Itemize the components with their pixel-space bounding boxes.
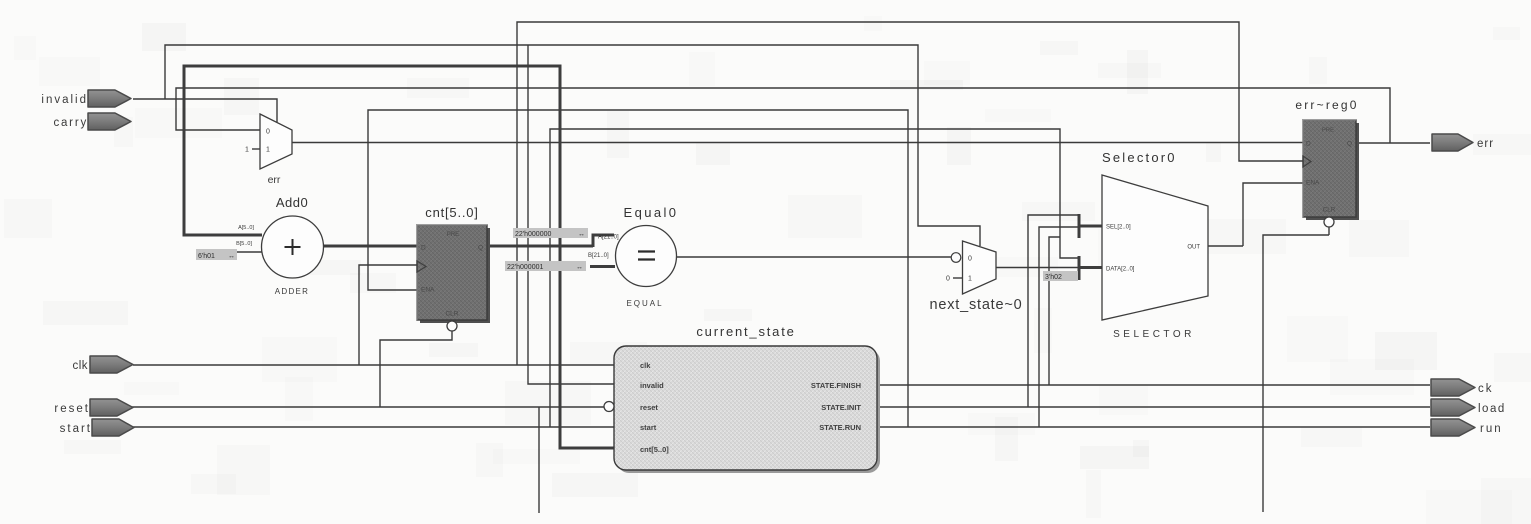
comparator Equal0 <box>588 205 678 308</box>
svg-text:SELECTOR: SELECTOR <box>1113 329 1195 340</box>
register cnt[5..0] <box>417 205 490 331</box>
svg-text:0: 0 <box>946 276 950 283</box>
svg-text:Selector0: Selector0 <box>1102 150 1177 165</box>
wire: clk net <box>133 22 1303 365</box>
port carry <box>53 113 131 130</box>
port run <box>1431 419 1503 436</box>
wire: Add0 output bus (thick) <box>324 245 417 248</box>
svg-text:next_state~0: next_state~0 <box>929 297 1022 313</box>
wire: Equal0 output to next_state mux <box>677 256 951 258</box>
svg-text:CLR: CLR <box>445 311 458 318</box>
svg-text:carry: carry <box>53 117 88 129</box>
port load <box>1431 399 1506 416</box>
svg-text:22'h000000: 22'h000000 <box>515 231 551 238</box>
svg-text:clk: clk <box>72 360 88 372</box>
fsm current_state <box>604 324 880 473</box>
label: constant 3'h02 at Selector DATA <box>1043 271 1078 281</box>
wire: err~reg0 CLR net <box>1263 227 1329 512</box>
svg-text:A[5..0]: A[5..0] <box>238 225 254 231</box>
svg-text:Add0: Add0 <box>276 195 308 210</box>
svg-text:err: err <box>1477 138 1494 150</box>
svg-text:1: 1 <box>968 276 972 283</box>
svg-text:ck: ck <box>1478 383 1494 395</box>
svg-text:3'h02: 3'h02 <box>1045 274 1062 281</box>
wire: state run / enable net <box>368 110 1430 427</box>
wire: Equal0 B constant stub (thick) <box>590 265 615 268</box>
svg-text:invalid: invalid <box>640 381 664 390</box>
svg-text:A[21..0]: A[21..0] <box>598 235 619 241</box>
current_state reset bubble <box>604 402 614 412</box>
wire: selector input collectors (thick) <box>1079 214 1102 280</box>
svg-text:EQUAL: EQUAL <box>626 299 663 308</box>
svg-text:ENA: ENA <box>421 287 435 294</box>
svg-text:reset: reset <box>54 403 90 415</box>
svg-text:↔: ↔ <box>576 264 583 271</box>
wire: Selector0 OUT to err~reg0 ENA <box>1208 183 1303 246</box>
register err~reg0 <box>1295 98 1359 227</box>
wire: start net <box>92 129 1079 427</box>
svg-text:1: 1 <box>266 147 270 154</box>
svg-text:clk: clk <box>640 361 651 370</box>
wire: next_state mux constant 0 stub <box>953 277 962 279</box>
wire: state init net <box>877 215 1430 407</box>
svg-text:load: load <box>1478 403 1506 415</box>
svg-text:CLR: CLR <box>1323 207 1336 214</box>
svg-text:0: 0 <box>266 129 270 136</box>
svg-text:SEL[2..0]: SEL[2..0] <box>1106 225 1131 231</box>
svg-text:err: err <box>268 174 281 186</box>
svg-text:B[21..0]: B[21..0] <box>588 253 609 259</box>
port clk <box>72 356 133 373</box>
svg-text:PRE: PRE <box>1322 128 1334 134</box>
selector Selector0 <box>1102 150 1208 340</box>
wire: invalid net <box>133 45 980 384</box>
port err <box>1432 134 1494 151</box>
svg-text:STATE.RUN: STATE.RUN <box>819 423 861 432</box>
svg-text:Q: Q <box>478 245 483 252</box>
svg-text:B[5..0]: B[5..0] <box>236 241 252 247</box>
svg-text:ADDER: ADDER <box>275 287 310 296</box>
wire: reset net <box>92 331 604 513</box>
adder Add0 <box>236 195 323 296</box>
wire: err feedback net <box>176 88 1430 143</box>
wire: err mux output to err~reg0 D <box>292 142 1303 144</box>
port reset <box>54 399 133 416</box>
mux next_state~0 <box>929 241 1022 313</box>
wire: state finish net <box>877 237 1430 385</box>
label: constant at Equal0 A <box>513 228 588 238</box>
port ck <box>1431 379 1494 396</box>
wire: next_state mux output <box>996 267 1079 269</box>
label: constant 6'h01 at Add0 B <box>196 249 237 260</box>
label: constant at Equal0 B <box>505 261 586 271</box>
cnt CLR bubble <box>447 321 457 331</box>
svg-text:reset: reset <box>640 403 658 412</box>
svg-text:cnt[5..0]: cnt[5..0] <box>640 445 669 454</box>
wire: cnt bus (thick) <box>184 66 614 448</box>
svg-text:err~reg0: err~reg0 <box>1295 98 1358 112</box>
svg-text:↔: ↔ <box>578 231 585 238</box>
svg-text:ENA: ENA <box>1306 180 1320 187</box>
err~reg0 CLR bubble <box>1324 217 1334 227</box>
svg-text:1: 1 <box>245 147 249 154</box>
wire: Add0 B constant stub <box>237 251 262 253</box>
svg-text:DATA[2..0]: DATA[2..0] <box>1106 267 1135 273</box>
svg-text:STATE.FINISH: STATE.FINISH <box>811 381 861 390</box>
mux err <box>245 114 292 186</box>
svg-text:start: start <box>640 423 657 432</box>
svg-text:Q: Q <box>1347 141 1352 148</box>
svg-text:6'h01: 6'h01 <box>198 253 215 260</box>
svg-text:invalid: invalid <box>41 94 88 106</box>
svg-text:cnt[5..0]: cnt[5..0] <box>425 205 478 220</box>
svg-text:Equal0: Equal0 <box>624 205 679 220</box>
svg-text:current_state: current_state <box>696 324 795 339</box>
port start <box>60 419 134 436</box>
svg-text:D: D <box>1306 141 1311 148</box>
wire: err mux constant 1 stub <box>252 148 260 150</box>
svg-text:PRE: PRE <box>447 232 459 238</box>
svg-text:0: 0 <box>968 256 972 263</box>
svg-text:STATE.INIT: STATE.INIT <box>821 403 861 412</box>
svg-text:run: run <box>1480 423 1503 435</box>
svg-text:22'h000001: 22'h000001 <box>507 264 543 271</box>
svg-text:OUT: OUT <box>1187 245 1200 251</box>
svg-text:D: D <box>421 245 426 252</box>
svg-text:↔: ↔ <box>228 253 235 260</box>
svg-text:start: start <box>60 423 92 435</box>
port invalid <box>41 90 131 107</box>
